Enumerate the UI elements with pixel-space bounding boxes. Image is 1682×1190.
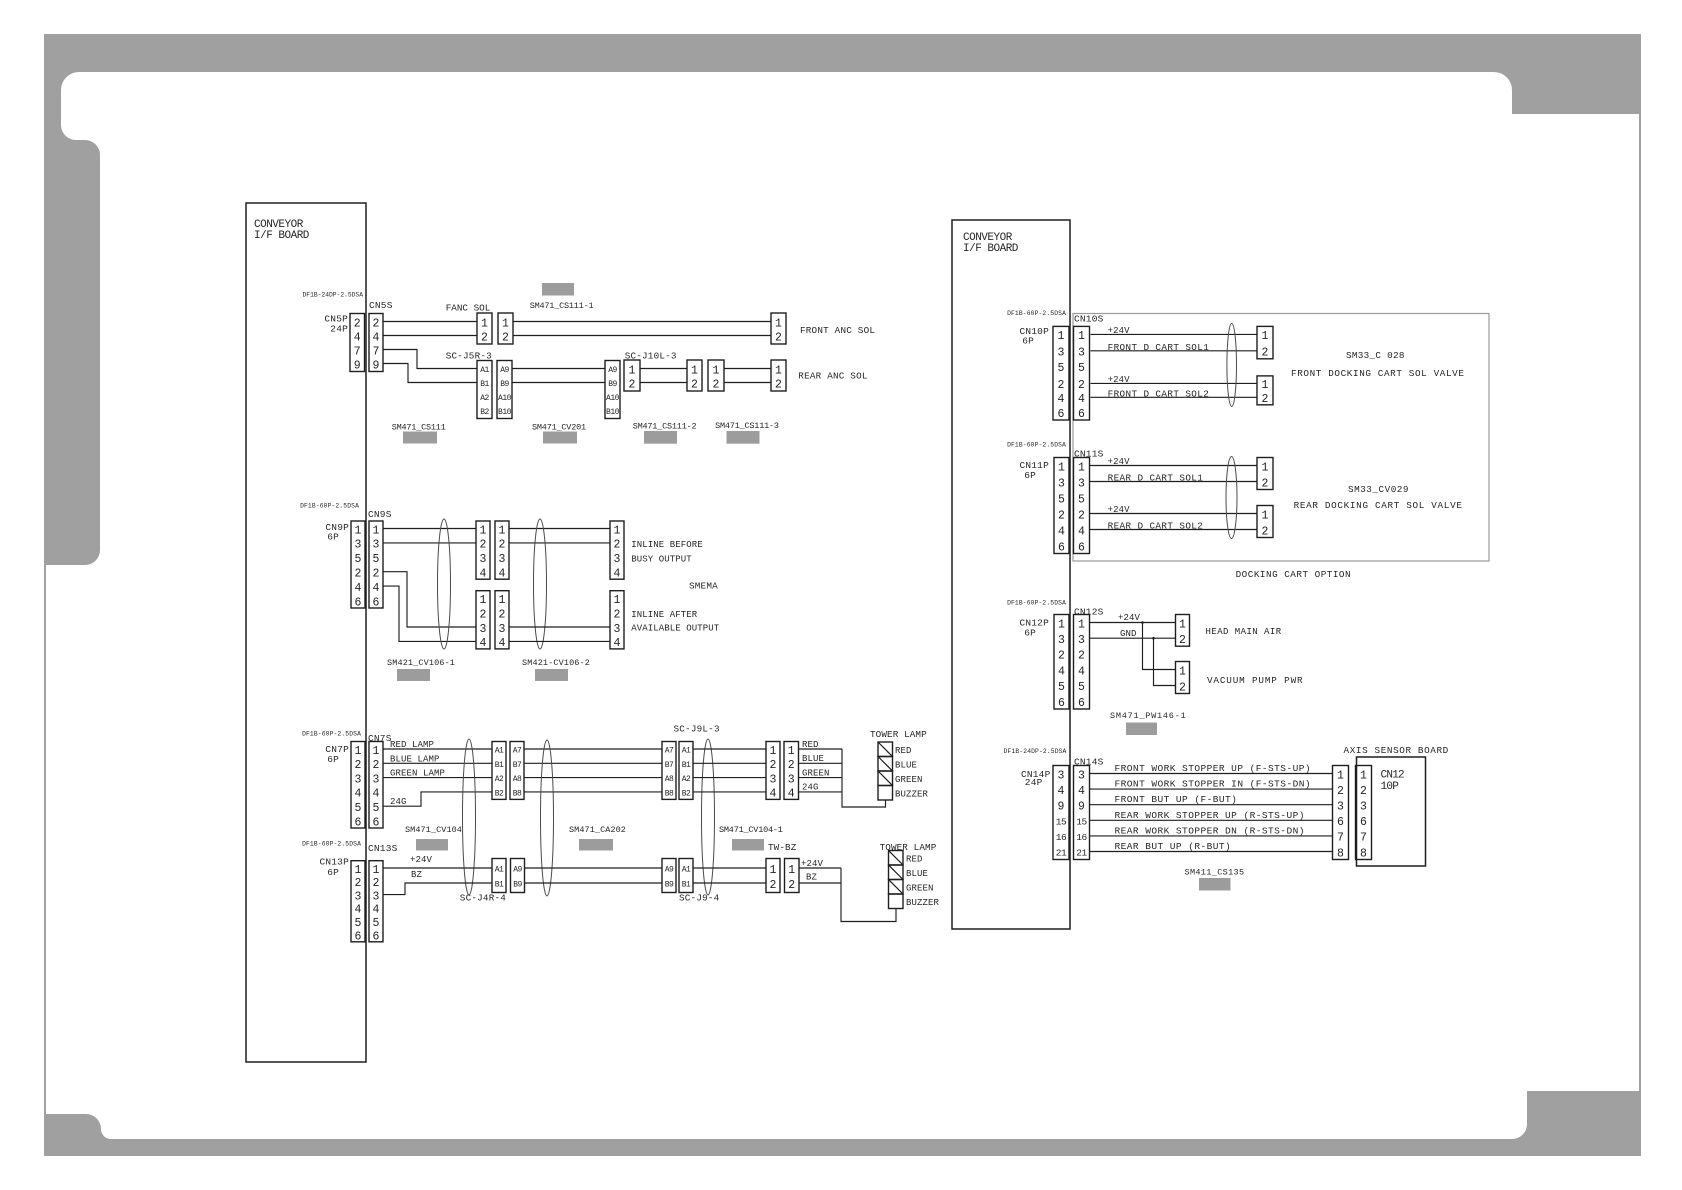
- svg-text:9: 9: [354, 359, 361, 372]
- svg-text:2: 2: [770, 759, 777, 772]
- svg-text:24P: 24P: [1025, 777, 1043, 788]
- connector SC-J9-4 plug: [662, 859, 676, 893]
- svg-text:2: 2: [775, 331, 782, 344]
- svg-text:6: 6: [1078, 697, 1085, 710]
- svg-text:BUZZER: BUZZER: [895, 790, 929, 800]
- cable loom CN9 loom 1: [438, 519, 451, 649]
- svg-text:A2: A2: [495, 775, 504, 784]
- svg-text:4: 4: [1078, 785, 1085, 798]
- wire cn14 wire 6: [1090, 851, 1333, 853]
- svg-text:2: 2: [788, 879, 795, 892]
- wire CN9S-1: [383, 528, 476, 530]
- connector tower lamp plug: [766, 742, 780, 801]
- svg-text:5: 5: [373, 917, 380, 930]
- connector VACUUM PUMP conn: [1176, 662, 1190, 695]
- cable loom CN9 loom 2: [534, 519, 547, 649]
- svg-text:3: 3: [373, 773, 380, 786]
- wire tower blue: [799, 762, 843, 764]
- wire tower 24G: [799, 791, 843, 793]
- redaction box SM471_PW146-1: [1126, 723, 1157, 736]
- connector SM421_CV106-1 plug a: [476, 521, 490, 581]
- connector tw plug b: [511, 859, 525, 893]
- svg-text:3: 3: [770, 773, 777, 786]
- svg-text:6: 6: [1058, 697, 1065, 710]
- connector INLINE BEFORE conn: [610, 521, 624, 581]
- connector CN9P: [351, 521, 365, 609]
- svg-text:A1: A1: [495, 866, 504, 875]
- svg-text:1: 1: [788, 864, 795, 877]
- connector FANC SOL mate: [498, 313, 513, 344]
- svg-text:A1: A1: [480, 366, 489, 375]
- wire tower lamp 3: [693, 777, 766, 779]
- svg-text:2: 2: [480, 539, 487, 552]
- svg-text:TW-BZ: TW-BZ: [768, 842, 797, 853]
- svg-text:DF1B-60P-2.5DSA: DF1B-60P-2.5DSA: [302, 841, 361, 848]
- wire CN13 BZ: [383, 883, 492, 895]
- connector axis sensor plug: [1333, 766, 1349, 861]
- svg-text:2: 2: [499, 608, 506, 621]
- connector TW-BZ mate: [785, 859, 800, 893]
- svg-text:3: 3: [788, 773, 795, 786]
- svg-text:SM471_CS111-3: SM471_CS111-3: [715, 421, 779, 431]
- svg-text:1: 1: [480, 524, 487, 537]
- svg-text:6: 6: [1058, 408, 1065, 421]
- wire CN13 +24V: [383, 867, 492, 869]
- svg-text:1: 1: [1179, 618, 1186, 631]
- svg-text:1: 1: [1058, 330, 1065, 343]
- svg-text:SM33_CV029: SM33_CV029: [1348, 484, 1409, 495]
- cable loom CN7 loom 3: [702, 739, 715, 895]
- connector CN12P: [1054, 615, 1069, 710]
- svg-text:2: 2: [1262, 393, 1269, 406]
- wire tw trunk A9: [525, 867, 663, 869]
- svg-text:2: 2: [1337, 785, 1344, 798]
- wire cn14 wire 5: [1090, 835, 1333, 837]
- wire cn14 wire 2: [1090, 788, 1333, 790]
- connector TW-BZ plug: [766, 859, 780, 893]
- svg-text:2: 2: [1058, 650, 1065, 663]
- wire tw-bz 1: [693, 867, 766, 869]
- svg-text:4: 4: [1058, 665, 1065, 678]
- connector CN12S: [1074, 615, 1090, 710]
- svg-text:DF1B-24DP-2.5DSA: DF1B-24DP-2.5DSA: [1004, 748, 1067, 755]
- svg-text:4: 4: [373, 788, 380, 801]
- svg-text:VACUUM PUMP PWR: VACUUM PUMP PWR: [1207, 675, 1303, 686]
- svg-text:9: 9: [1058, 801, 1065, 814]
- svg-text:2: 2: [1262, 525, 1269, 538]
- svg-text:9: 9: [1078, 801, 1085, 814]
- redaction box SM471_CV104: [416, 839, 448, 851]
- svg-text:FRONT WORK STOPPER UP (F-STS-U: FRONT WORK STOPPER UP (F-STS-UP): [1115, 763, 1312, 774]
- svg-text:2: 2: [775, 378, 782, 391]
- svg-text:B2: B2: [480, 408, 489, 417]
- junction cn12 +24v tap: [1141, 621, 1144, 624]
- svg-text:SM411_CS135: SM411_CS135: [1185, 868, 1245, 878]
- wire rear anc sol line 2: [724, 382, 771, 384]
- svg-text:1: 1: [1058, 618, 1065, 631]
- svg-text:3: 3: [614, 553, 621, 566]
- svg-text:4: 4: [354, 331, 361, 344]
- wire front anc sol line 1: [513, 321, 771, 323]
- svg-text:GREEN: GREEN: [895, 775, 923, 785]
- connector SM471_CS111-3 plug: [708, 360, 724, 391]
- svg-text:1: 1: [770, 745, 777, 758]
- svg-text:3: 3: [373, 539, 380, 552]
- wire CN5S-2 to FANC SOL 1: [383, 321, 477, 323]
- svg-text:4: 4: [1078, 525, 1085, 538]
- svg-text:1: 1: [713, 364, 720, 377]
- wire CN5S-7 to SC-J5R-3 A1: [383, 350, 477, 369]
- connector CN14P: [1053, 766, 1069, 860]
- tower lamp stack (lower): [889, 851, 904, 909]
- svg-text:A9: A9: [665, 866, 674, 875]
- svg-text:A9: A9: [513, 866, 522, 875]
- svg-text:RED: RED: [802, 740, 819, 750]
- svg-text:24P: 24P: [330, 324, 348, 335]
- svg-text:2: 2: [1262, 477, 1269, 490]
- redaction box SM421_CV106-1: [397, 669, 430, 681]
- svg-text:6P: 6P: [327, 754, 339, 765]
- svg-text:3: 3: [1058, 347, 1065, 360]
- svg-text:4: 4: [1078, 665, 1085, 678]
- svg-text:DF1B-60P-2.5DSA: DF1B-60P-2.5DSA: [1007, 442, 1066, 449]
- svg-text:2: 2: [1179, 634, 1186, 647]
- svg-text:5: 5: [355, 802, 362, 815]
- svg-text:5: 5: [373, 553, 380, 566]
- svg-text:DF1B-60P-2.5DSA: DF1B-60P-2.5DSA: [1007, 600, 1066, 607]
- svg-text:A7: A7: [665, 747, 674, 756]
- redaction box SM471_CS111: [403, 432, 437, 444]
- svg-text:SMEMA: SMEMA: [689, 581, 718, 592]
- connector rear sol2 conn: [1257, 506, 1273, 539]
- svg-text:SC-J4R-4: SC-J4R-4: [460, 893, 506, 904]
- svg-text:1: 1: [355, 745, 362, 758]
- connector front sol2 conn: [1257, 376, 1273, 406]
- svg-text:FRONT DOCKING CART SOL VALVE: FRONT DOCKING CART SOL VALVE: [1291, 368, 1465, 379]
- svg-text:REAR DOCKING CART SOL VALVE: REAR DOCKING CART SOL VALVE: [1294, 500, 1463, 511]
- wire cn14 wire 1: [1090, 773, 1333, 775]
- wire tw BZ: [799, 882, 841, 884]
- connector SC-J4R-4 plug: [492, 742, 506, 800]
- svg-text:DF1B-60P-2.5DSA: DF1B-60P-2.5DSA: [1007, 310, 1066, 317]
- svg-text:GREEN: GREEN: [802, 768, 830, 778]
- svg-text:6: 6: [1078, 541, 1085, 554]
- connector SM471_CV201 plug: [605, 361, 620, 419]
- svg-text:3: 3: [499, 553, 506, 566]
- svg-text:2: 2: [499, 539, 506, 552]
- svg-text:5: 5: [355, 917, 362, 930]
- svg-text:1: 1: [1337, 769, 1344, 782]
- svg-text:HEAD MAIN AIR: HEAD MAIN AIR: [1206, 627, 1282, 637]
- svg-text:2: 2: [788, 759, 795, 772]
- svg-text:2: 2: [770, 879, 777, 892]
- svg-text:I/F BOARD: I/F BOARD: [254, 230, 310, 242]
- redaction box SM421-CV106-2: [535, 669, 568, 681]
- svg-text:3: 3: [1078, 347, 1085, 360]
- svg-text:1: 1: [629, 364, 636, 377]
- redaction box SM411_CS135: [1199, 878, 1231, 891]
- svg-text:8: 8: [1337, 847, 1344, 860]
- svg-text:1: 1: [373, 745, 380, 758]
- wire rear d cart sol1: [1090, 481, 1258, 483]
- svg-text:SM471_CA202: SM471_CA202: [569, 825, 626, 835]
- connector tw plug a: [492, 859, 506, 893]
- svg-text:B9: B9: [608, 380, 617, 389]
- svg-text:GREEN: GREEN: [906, 884, 934, 894]
- svg-text:2: 2: [1262, 347, 1269, 360]
- redaction box SM471_CA202: [579, 839, 613, 851]
- svg-text:RED: RED: [895, 746, 912, 756]
- svg-text:CN10S: CN10S: [1074, 314, 1104, 325]
- svg-text:6: 6: [1337, 816, 1344, 829]
- svg-text:1: 1: [499, 524, 506, 537]
- connector SC-J5R-3: [477, 361, 492, 419]
- wire front d cart sol1: [1091, 350, 1258, 352]
- connector CN11S: [1074, 458, 1090, 555]
- wire inline before 2: [509, 542, 610, 544]
- svg-text:3: 3: [499, 623, 506, 636]
- connector CN9S: [369, 521, 383, 609]
- connector CN13S: [369, 861, 383, 944]
- svg-text:4: 4: [1078, 393, 1085, 406]
- svg-text:3: 3: [1360, 801, 1367, 814]
- svg-text:3: 3: [355, 773, 362, 786]
- cable loom CN11 loom: [1226, 457, 1237, 539]
- svg-text:4: 4: [373, 331, 380, 344]
- tower lamp stack (upper): [878, 742, 893, 800]
- svg-text:3: 3: [355, 539, 362, 552]
- connector SM471_CS111-2 plug: [687, 360, 702, 391]
- wire cn12 +24v: [1090, 622, 1176, 624]
- wire 24G: [383, 792, 492, 806]
- board AXIS SENSOR BOARD: [1357, 757, 1426, 866]
- svg-text:2: 2: [1058, 379, 1065, 392]
- svg-text:INLINE BEFORE: INLINE BEFORE: [631, 540, 703, 550]
- connector CN14S: [1074, 766, 1090, 860]
- svg-text:DOCKING CART OPTION: DOCKING CART OPTION: [1236, 569, 1352, 580]
- svg-text:AVAILABLE OUTPUT: AVAILABLE OUTPUT: [631, 624, 720, 634]
- connector SM421_CV106-1 plug b: [495, 521, 509, 581]
- svg-text:2: 2: [1078, 650, 1085, 663]
- wire tw bus: [841, 868, 896, 922]
- svg-text:SM421-CV106-2: SM421-CV106-2: [522, 658, 590, 668]
- svg-text:CN7S: CN7S: [368, 733, 392, 744]
- svg-text:1: 1: [481, 317, 488, 330]
- svg-text:4: 4: [499, 568, 506, 581]
- svg-text:SC-J9L-3: SC-J9L-3: [674, 723, 720, 734]
- svg-text:REAR WORK STOPPER DN (R-STS-DN: REAR WORK STOPPER DN (R-STS-DN): [1115, 825, 1305, 836]
- svg-text:REAR ANC SOL: REAR ANC SOL: [798, 371, 867, 382]
- svg-text:4: 4: [614, 568, 621, 581]
- svg-text:A10: A10: [498, 394, 512, 403]
- svg-text:AXIS SENSOR BOARD: AXIS SENSOR BOARD: [1344, 745, 1449, 756]
- svg-text:2: 2: [355, 877, 362, 890]
- svg-text:1: 1: [1078, 330, 1085, 343]
- svg-text:2: 2: [502, 331, 509, 344]
- svg-text:7: 7: [1337, 832, 1344, 845]
- svg-text:4: 4: [355, 904, 362, 917]
- svg-text:6P: 6P: [1024, 628, 1036, 639]
- svg-text:REAR BUT UP (R-BUT): REAR BUT UP (R-BUT): [1115, 841, 1232, 852]
- svg-text:B1: B1: [682, 881, 691, 890]
- svg-text:DF1B-24DP-2.5DSA: DF1B-24DP-2.5DSA: [303, 292, 364, 299]
- svg-text:2: 2: [355, 568, 362, 581]
- svg-text:2: 2: [614, 608, 621, 621]
- svg-text:5: 5: [1078, 493, 1085, 506]
- connector front sol1 conn: [1257, 326, 1273, 359]
- cable loom CN10 loom: [1227, 324, 1237, 407]
- svg-text:4: 4: [770, 788, 777, 801]
- svg-text:A10: A10: [606, 394, 620, 403]
- wire cn12 gnd: [1090, 637, 1176, 639]
- svg-text:4: 4: [1058, 393, 1065, 406]
- svg-text:BUSY OUTPUT: BUSY OUTPUT: [631, 555, 692, 565]
- cable loom CN7 loom 1: [463, 739, 476, 895]
- svg-text:1: 1: [480, 594, 487, 607]
- connector rear sol1 conn: [1257, 458, 1273, 491]
- connector INLINE AFTER conn: [610, 591, 624, 651]
- svg-text:1: 1: [1078, 618, 1085, 631]
- svg-text:3: 3: [480, 553, 487, 566]
- connector SM421_CV106-2 plug b: [495, 591, 509, 651]
- svg-text:6: 6: [373, 596, 380, 609]
- connector HEAD MAIN AIR conn: [1176, 615, 1190, 648]
- wire lamp trunk B7: [524, 762, 662, 764]
- svg-text:BLUE: BLUE: [802, 754, 824, 764]
- wire lamp trunk A8: [524, 777, 662, 779]
- connector CN10P: [1053, 326, 1069, 420]
- wire tw +24V: [799, 867, 841, 869]
- svg-text:SM471_CS111-1: SM471_CS111-1: [530, 301, 594, 311]
- wire lamp trunk A7: [524, 748, 662, 750]
- svg-text:6: 6: [1078, 408, 1085, 421]
- connector tower lamp mate: [784, 742, 799, 801]
- svg-text:CN13S: CN13S: [368, 843, 398, 854]
- connector SM421_CV106-2 plug a: [476, 591, 490, 651]
- svg-text:2: 2: [691, 378, 698, 391]
- connector FANC SOL plug: [477, 313, 492, 344]
- svg-text:2: 2: [373, 317, 380, 330]
- svg-text:A1: A1: [682, 866, 691, 875]
- svg-text:6: 6: [355, 816, 362, 829]
- svg-text:2: 2: [1078, 509, 1085, 522]
- svg-text:3: 3: [614, 623, 621, 636]
- wire front anc sol line 2: [513, 335, 771, 337]
- wire tower lamp 2: [693, 762, 766, 764]
- redaction box SM471_CS111-2: [644, 431, 677, 444]
- svg-text:6: 6: [355, 930, 362, 943]
- svg-text:CN12: CN12: [1381, 770, 1405, 782]
- svg-text:4: 4: [1058, 785, 1065, 798]
- connector SC-J10L-3: [624, 360, 640, 391]
- svg-text:1: 1: [499, 594, 506, 607]
- svg-text:FRONT BUT UP (F-BUT): FRONT BUT UP (F-BUT): [1115, 794, 1238, 805]
- svg-text:SM421_CV106-1: SM421_CV106-1: [387, 658, 455, 668]
- svg-text:4: 4: [373, 582, 380, 595]
- svg-text:REAR WORK STOPPER UP (R-STS-UP: REAR WORK STOPPER UP (R-STS-UP): [1115, 810, 1305, 821]
- svg-text:1: 1: [1262, 379, 1269, 392]
- connector CN11P: [1054, 458, 1069, 555]
- svg-text:6: 6: [373, 930, 380, 943]
- svg-text:2: 2: [354, 317, 361, 330]
- svg-text:+24V: +24V: [1118, 613, 1141, 623]
- svg-text:1: 1: [691, 364, 698, 377]
- svg-text:A9: A9: [608, 366, 617, 375]
- svg-text:5: 5: [1058, 681, 1065, 694]
- wire J10L link 1: [640, 368, 687, 370]
- wire CN5S-4 to FANC SOL 2: [383, 335, 477, 337]
- svg-text:1: 1: [1179, 665, 1186, 678]
- svg-text:6P: 6P: [327, 867, 339, 878]
- svg-text:SM471_PW146-1: SM471_PW146-1: [1110, 711, 1186, 721]
- svg-text:2: 2: [373, 568, 380, 581]
- svg-text:7: 7: [373, 345, 380, 358]
- svg-text:SM471_CV104: SM471_CV104: [405, 825, 462, 835]
- svg-text:1: 1: [614, 524, 621, 537]
- svg-text:RED: RED: [906, 855, 923, 865]
- svg-text:15: 15: [1076, 816, 1087, 827]
- svg-text:B7: B7: [665, 761, 674, 770]
- svg-text:TOWER LAMP: TOWER LAMP: [870, 729, 927, 740]
- junction cn12 gnd tap: [1152, 637, 1155, 640]
- svg-text:16: 16: [1076, 832, 1087, 843]
- svg-text:A1: A1: [682, 747, 691, 756]
- wire cn11 +24v 1: [1090, 465, 1258, 467]
- svg-text:5: 5: [355, 553, 362, 566]
- svg-text:1: 1: [788, 745, 795, 758]
- svg-text:3: 3: [1078, 769, 1085, 782]
- wire blue lamp: [383, 762, 492, 764]
- svg-text:SM471_CV104-1: SM471_CV104-1: [719, 825, 783, 835]
- svg-text:6: 6: [373, 816, 380, 829]
- board CONVEYOR I/F BOARD (right): [952, 220, 1070, 929]
- svg-text:B2: B2: [682, 790, 691, 799]
- svg-text:A8: A8: [665, 775, 674, 784]
- svg-text:B9: B9: [665, 881, 674, 890]
- svg-text:B8: B8: [665, 790, 674, 799]
- connector CN7P: [351, 742, 365, 830]
- svg-text:B1: B1: [495, 761, 504, 770]
- svg-text:3: 3: [1058, 769, 1065, 782]
- svg-text:10P: 10P: [1381, 781, 1400, 793]
- svg-text:B1: B1: [682, 761, 691, 770]
- svg-text:CN9S: CN9S: [368, 509, 392, 520]
- wire tw trunk B9: [525, 882, 663, 884]
- svg-text:A1: A1: [495, 747, 504, 756]
- svg-text:5: 5: [1058, 493, 1065, 506]
- redaction box SM471_CV201: [543, 432, 577, 444]
- svg-text:6P: 6P: [1024, 470, 1036, 481]
- svg-text:BZ: BZ: [806, 873, 818, 883]
- svg-text:3: 3: [1078, 634, 1085, 647]
- wire tower bus: [842, 749, 886, 807]
- svg-text:2: 2: [1078, 379, 1085, 392]
- svg-text:1: 1: [1262, 330, 1269, 343]
- svg-text:SM471_CS111: SM471_CS111: [392, 423, 446, 433]
- wire cn10 +24v 1: [1091, 333, 1258, 335]
- svg-text:1: 1: [1058, 461, 1065, 474]
- svg-text:2: 2: [480, 608, 487, 621]
- svg-text:3: 3: [373, 890, 380, 903]
- wire CN5S-9 to SC-J5R-3 B1: [383, 364, 477, 383]
- svg-text:1: 1: [1262, 461, 1269, 474]
- redaction box SM471_CS111-3: [727, 431, 760, 444]
- svg-text:A8: A8: [513, 775, 522, 784]
- svg-text:SM33_C 028: SM33_C 028: [1346, 350, 1405, 361]
- svg-text:1: 1: [775, 317, 782, 330]
- connector SC-J9L-3 mate: [679, 742, 693, 800]
- svg-text:3: 3: [480, 623, 487, 636]
